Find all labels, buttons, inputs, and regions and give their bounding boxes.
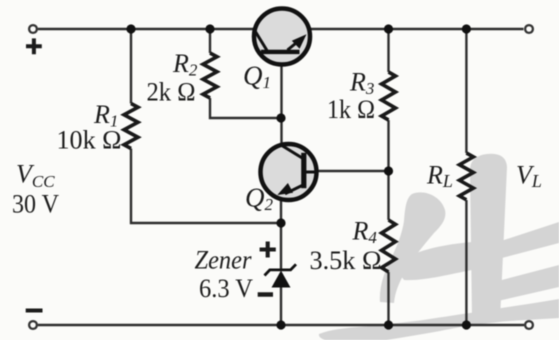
- svg-text:2k Ω: 2k Ω: [147, 78, 196, 107]
- svg-text:30 V: 30 V: [12, 190, 59, 219]
- svg-text:Zener: Zener: [195, 246, 253, 275]
- svg-text:3.5k Ω: 3.5k Ω: [310, 246, 382, 275]
- svg-text:6.3 V: 6.3 V: [199, 274, 253, 303]
- svg-text:1k Ω: 1k Ω: [327, 95, 375, 124]
- svg-text:10k Ω: 10k Ω: [57, 126, 122, 155]
